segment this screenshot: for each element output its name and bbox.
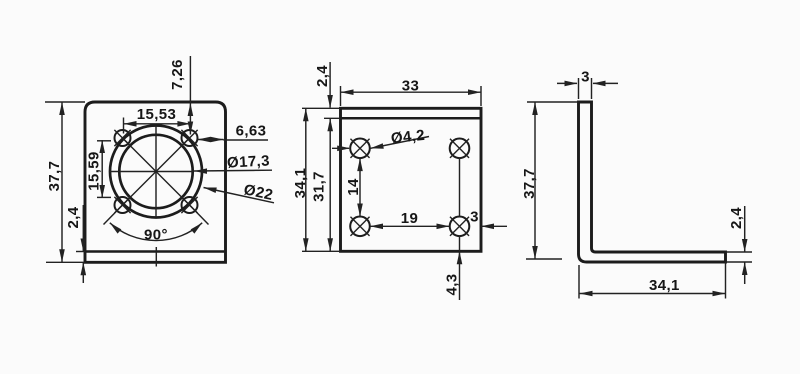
right view: L profile outline bbox=[579, 102, 726, 262]
left view: hole top-right bbox=[182, 130, 198, 146]
svg-text:6,63: 6,63 bbox=[236, 123, 267, 140]
left view: foot center tick bbox=[155, 247, 157, 267]
left view: foot bend line left tick bbox=[76, 251, 85, 253]
left view: outer circle O22 bbox=[110, 126, 202, 218]
svg-text:2,4: 2,4 bbox=[314, 65, 331, 87]
left view: horizontal center line bbox=[109, 171, 193, 173]
right view: dimension 2,4 bbox=[744, 206, 746, 252]
svg-text:14: 14 bbox=[345, 178, 362, 196]
middle view: center line below bottom-right hole bbox=[459, 236, 461, 251]
middle view: dimension 33 bbox=[341, 91, 482, 93]
left view: dimension 15,59 bbox=[101, 140, 103, 198]
middle view: wall edge line bbox=[341, 117, 482, 120]
svg-text:3: 3 bbox=[581, 69, 590, 86]
middle view: leader O4,2 bbox=[371, 137, 430, 149]
left view: 90 deg angle arc bbox=[110, 223, 202, 241]
middle view: bottom edge extension line bbox=[302, 250, 341, 252]
left view: leader O17,3 bbox=[194, 169, 272, 172]
svg-text:7,26: 7,26 bbox=[169, 59, 186, 90]
middle view: foot plate outline bbox=[341, 108, 482, 251]
left view: dimension 7,26 bbox=[189, 56, 191, 135]
left view: dimension 2,4 bbox=[82, 205, 84, 252]
left view: hole bottom-right bbox=[182, 197, 198, 213]
svg-text:37,7: 37,7 bbox=[521, 168, 538, 199]
svg-text:Ø4,2: Ø4,2 bbox=[390, 127, 426, 147]
middle view: dimension 14 bbox=[359, 158, 361, 216]
middle view: dimension 19 bbox=[370, 225, 450, 227]
left view: radial line from bottom-left hole bbox=[104, 205, 123, 225]
middle view: hole bottom-right bbox=[450, 217, 470, 237]
middle view: hole top-right bbox=[450, 139, 470, 159]
left view: vertical center line bbox=[155, 126, 157, 218]
right view: dimension 34,1 bbox=[580, 293, 726, 295]
svg-text:4,3: 4,3 bbox=[444, 273, 461, 295]
middle view: dimension 2,4 bbox=[329, 62, 331, 108]
svg-text:31,7: 31,7 bbox=[311, 171, 328, 202]
svg-text:2,4: 2,4 bbox=[65, 206, 82, 228]
middle view: dimension 4,3 bbox=[459, 251, 461, 300]
svg-text:90°: 90° bbox=[144, 227, 168, 244]
left view: diagonal center line TL-BR bbox=[124, 139, 189, 204]
svg-text:33: 33 bbox=[402, 78, 420, 95]
svg-text:34,1: 34,1 bbox=[292, 168, 309, 199]
svg-text:37,7: 37,7 bbox=[46, 161, 63, 192]
svg-text:2,4: 2,4 bbox=[728, 207, 745, 229]
middle view: wall edge extension line bbox=[324, 117, 341, 119]
left view: hole top-left bbox=[115, 130, 131, 146]
left view: radial line from bottom-right hole bbox=[190, 205, 209, 225]
middle view: dimension 34,1 bbox=[305, 108, 307, 251]
right view: top edge extension line bbox=[527, 101, 579, 103]
middle view: hole bottom-left bbox=[350, 217, 370, 237]
left view: bracket front plate outline bbox=[85, 102, 226, 262]
svg-text:3: 3 bbox=[470, 209, 479, 226]
left view: foot bend line bbox=[85, 250, 226, 253]
left view: hole bottom-left bbox=[115, 197, 131, 213]
svg-text:Ø22: Ø22 bbox=[242, 181, 274, 204]
middle view: center line between right holes bbox=[459, 158, 461, 216]
left view: diagonal center line TR-BL bbox=[124, 139, 189, 204]
middle view: top edge extension line bbox=[302, 107, 341, 109]
right view: dimension 3 bbox=[557, 82, 577, 84]
left view: dimension 6,63 bbox=[198, 139, 224, 141]
svg-text:15,59: 15,59 bbox=[86, 151, 103, 191]
left view: leader O22 bbox=[204, 188, 275, 203]
left view: inner circle O17.3 bbox=[119, 135, 192, 208]
middle view: dimension 3 bbox=[481, 225, 507, 227]
svg-text:Ø17,3: Ø17,3 bbox=[227, 152, 271, 171]
middle view: hole top-left bbox=[350, 139, 370, 159]
svg-text:19: 19 bbox=[401, 210, 419, 227]
left view: top edge extension line bbox=[45, 101, 85, 103]
left view: dimension 37,7 bbox=[61, 102, 63, 262]
right view: dimension 37,7 bbox=[534, 102, 536, 259]
svg-text:34,1: 34,1 bbox=[649, 277, 680, 294]
svg-text:15,53: 15,53 bbox=[137, 106, 177, 123]
left view: bottom edge extension line bbox=[46, 261, 85, 263]
middle view: left hole edge arrow bbox=[332, 147, 349, 149]
left view: dimension 15,53 top bbox=[124, 123, 191, 125]
middle view: dimension 31,7 bbox=[329, 118, 331, 251]
